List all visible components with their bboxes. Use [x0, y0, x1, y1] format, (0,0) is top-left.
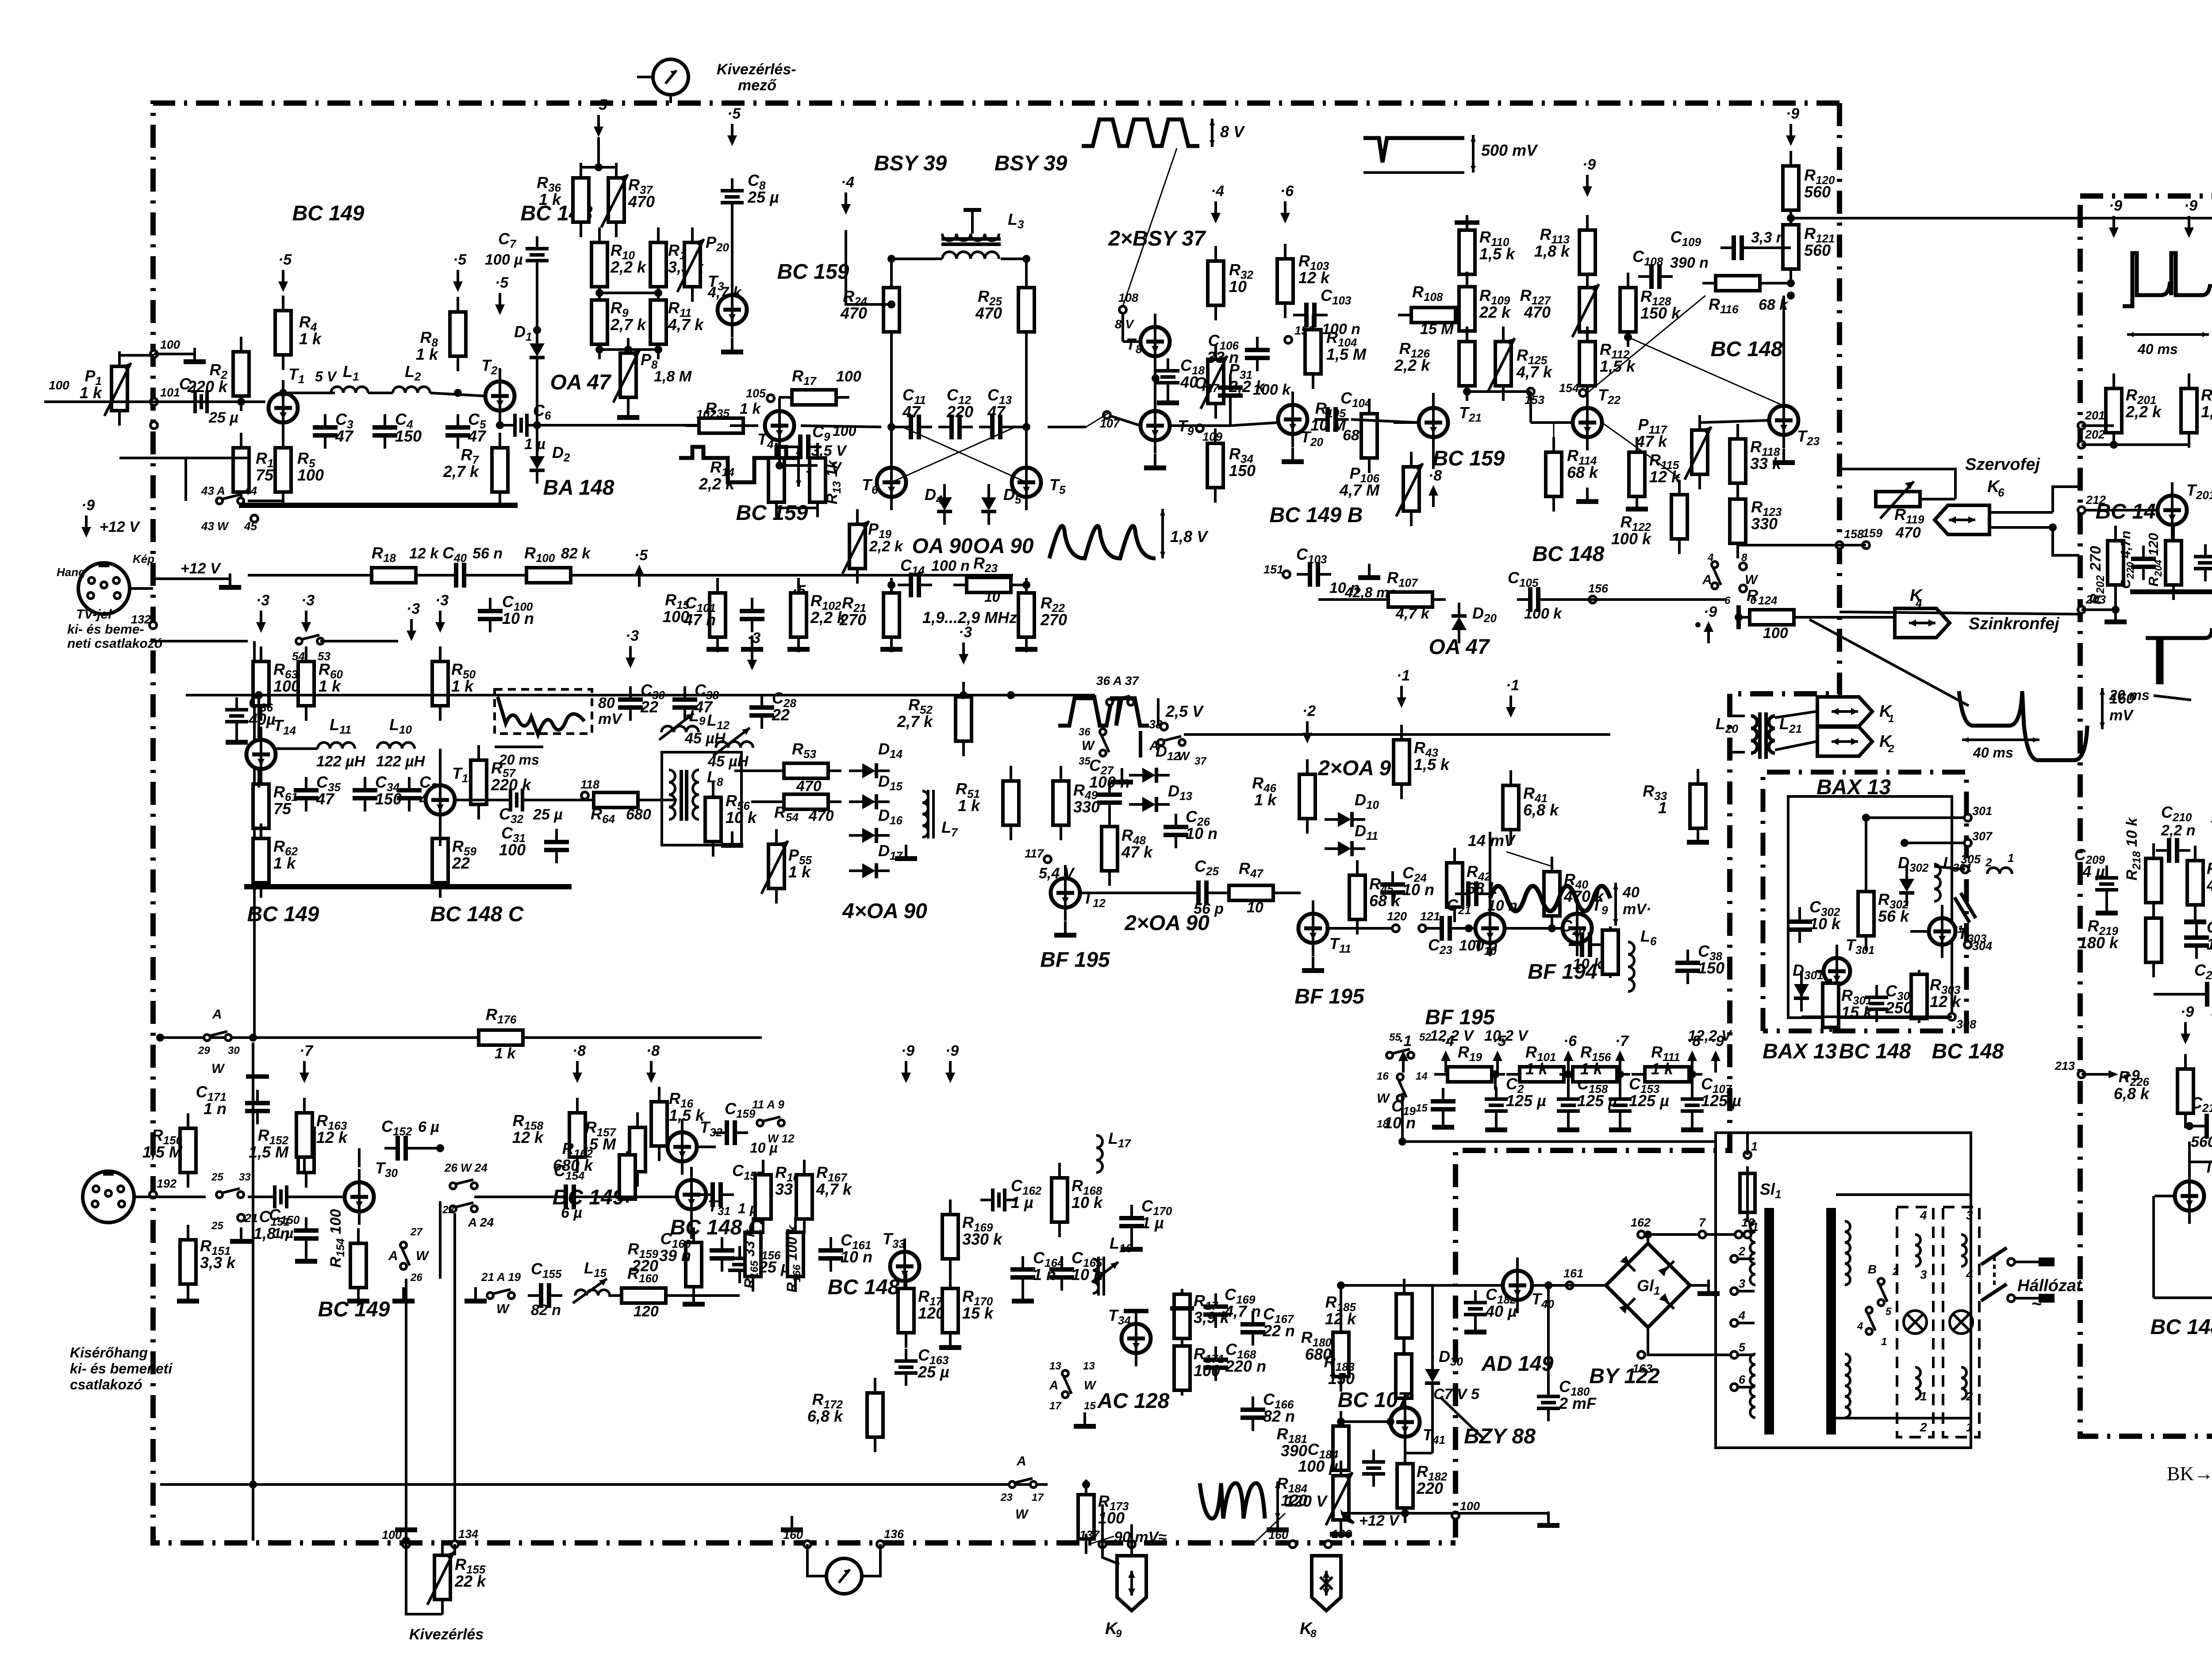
svg-text:1: 1 — [1751, 1140, 1758, 1153]
label R109 — [1479, 286, 1511, 321]
wire meter stem — [669, 95, 672, 103]
diode D12 — [1129, 768, 1170, 783]
diode D2 — [530, 443, 545, 484]
capacitor C31 — [544, 829, 569, 863]
wire sw to R1 — [248, 500, 283, 502]
bar R110 top — [1455, 220, 1479, 225]
svg-text:100: 100 — [49, 378, 69, 392]
capacitor C107 — [1681, 1087, 1704, 1124]
transistor T33 — [890, 1238, 919, 1294]
node 304 — [1964, 939, 1992, 953]
resistor R167 — [796, 1160, 812, 1234]
label R108 — [1412, 283, 1443, 304]
svg-text:1,8 k: 1,8 k — [1534, 242, 1571, 260]
capacitor C170 — [1119, 1205, 1144, 1239]
resistor R17b — [1174, 1289, 1190, 1344]
wire ps rail b — [1547, 1513, 1550, 1521]
svg-text:122 µH: 122 µH — [316, 753, 366, 770]
svg-text:BF 195: BF 195 — [1040, 948, 1110, 972]
label D13 — [1168, 782, 1192, 803]
label R60 — [319, 660, 343, 695]
node 136b — [1325, 1527, 1352, 1548]
svg-text:12 k: 12 k — [512, 1128, 544, 1146]
junction R12 mid — [654, 289, 662, 297]
svg-text:BC 148 C: BC 148 C — [430, 903, 524, 926]
diode D14 — [849, 763, 890, 778]
inductor L headwheel — [1987, 868, 2012, 874]
label R100 — [524, 544, 555, 565]
svg-text:1: 1 — [1658, 799, 1667, 817]
capacitor C1 — [183, 390, 220, 413]
label C171 — [196, 1083, 227, 1118]
wire 203 row — [2081, 608, 2116, 611]
wire row13 d — [571, 574, 1013, 577]
node 108 — [1118, 291, 1138, 313]
svg-text:10 k: 10 k — [1071, 1193, 1103, 1211]
ground T3 — [721, 338, 743, 354]
resistor R109 — [1459, 272, 1475, 346]
label R36 — [537, 173, 562, 208]
node 308 — [1948, 1013, 1976, 1031]
label R180 — [1301, 1328, 1332, 1363]
svg-text:Szervofej: Szervofej — [1965, 455, 2040, 474]
svg-text:2,7 k: 2,7 k — [610, 315, 647, 334]
svg-text:·9: ·9 — [901, 1042, 914, 1059]
label R152 — [249, 1126, 289, 1161]
power arrow +3 (C101) — [747, 630, 760, 670]
label C27 — [1089, 756, 1130, 791]
wire 153-T22 — [1529, 392, 1532, 423]
wire T12 out — [1080, 892, 1189, 894]
label C301 — [1885, 982, 1926, 1017]
resistor R105 — [1361, 399, 1377, 473]
label C161 — [841, 1231, 872, 1266]
label C106 — [1207, 331, 1239, 366]
svg-text:W: W — [1745, 573, 1759, 587]
svg-text:38: 38 — [1149, 718, 1162, 731]
ground R33 — [1687, 828, 1709, 845]
wire R47 to T11 — [1273, 892, 1301, 894]
node 160a — [783, 1528, 811, 1548]
resistor R156 — [1559, 1067, 1630, 1082]
svg-text:·5: ·5 — [495, 274, 509, 291]
capacitor C9 — [787, 435, 822, 459]
junction bax2 — [1901, 839, 1909, 847]
svg-text:+12 V: +12 V — [1359, 1512, 1400, 1529]
svg-text:560: 560 — [1804, 241, 1831, 259]
label P31 — [1229, 361, 1265, 396]
svg-text:47: 47 — [987, 403, 1006, 421]
svg-text:BC 148: BC 148 — [1839, 1040, 1911, 1063]
node 21 — [238, 1211, 258, 1225]
ground bus mid stage — [244, 884, 572, 889]
resistor R172 — [867, 1378, 883, 1452]
cross in K8 — [1320, 1577, 1333, 1589]
wire vert x572 — [252, 1042, 254, 1541]
power arrow +3 (R60) — [301, 592, 315, 633]
svg-text:151: 151 — [1263, 563, 1283, 576]
label R32 — [1229, 261, 1253, 296]
svg-text:2,7 k: 2,7 k — [897, 712, 933, 731]
resistor R51 — [1003, 766, 1019, 840]
wire T13 up — [439, 749, 442, 785]
arrow +12v leader — [1343, 1513, 1354, 1523]
potentiometer P55 — [761, 829, 788, 904]
fuse Sl1 — [1740, 1166, 1781, 1218]
power arrow r3 — [1493, 1033, 1506, 1073]
label R63 — [273, 660, 300, 695]
junction R120 mid — [1787, 214, 1795, 222]
svg-text:1 µ: 1 µ — [1011, 1193, 1033, 1211]
label R126 — [1394, 339, 1431, 374]
svg-text:BF 195: BF 195 — [1425, 1006, 1495, 1029]
svg-text:307: 307 — [1972, 830, 1993, 843]
resistor R32 — [1208, 246, 1224, 320]
diode D16 — [849, 828, 890, 843]
label P1 — [80, 367, 103, 402]
label C169 — [1224, 1285, 1261, 1320]
label R22 — [1040, 594, 1067, 629]
wire P1 top — [118, 351, 121, 355]
svg-text:132: 132 — [131, 613, 151, 626]
capacitor C38 — [1675, 950, 1700, 984]
frame BAX13 sub-block — [1763, 772, 1966, 1031]
svg-text:100: 100 — [1460, 1500, 1480, 1513]
svg-text:B: B — [1868, 1262, 1877, 1276]
svg-text:W: W — [211, 1061, 225, 1076]
wire T21 collector — [1433, 393, 1434, 408]
resistor R163 — [296, 1098, 312, 1172]
svg-text:47: 47 — [335, 427, 354, 445]
node 137 — [1079, 1528, 1106, 1548]
DIN connector Kiserohang — [83, 1170, 134, 1223]
label R17 — [792, 367, 817, 388]
svg-text:17: 17 — [1049, 1400, 1062, 1412]
wire T4 col — [778, 440, 781, 465]
ground C164 — [1012, 1287, 1034, 1304]
resistor R34 — [1207, 428, 1223, 503]
power arrow +2 (R46) — [1302, 703, 1316, 743]
svg-text:330: 330 — [1751, 515, 1778, 533]
svg-text:120: 120 — [1387, 910, 1407, 923]
wire C6 to D1 node — [540, 424, 705, 427]
junction bsy4 — [887, 300, 895, 308]
transistor T303 — [1929, 905, 1955, 958]
svg-text:·5: ·5 — [727, 105, 741, 122]
resistor R4 — [275, 296, 291, 370]
wire R107 left — [1318, 598, 1375, 601]
potentiometer R37 — [601, 163, 628, 237]
junction R124 — [1735, 613, 1743, 621]
label C17 — [1194, 374, 1219, 395]
label R40 — [1563, 870, 1605, 905]
wire R14 R13 join — [776, 507, 818, 509]
wire L12-R53 — [734, 748, 735, 771]
leader 90mV — [1089, 1536, 1114, 1544]
node 100 — [150, 338, 180, 358]
svg-text:100 n: 100 n — [931, 558, 970, 574]
wire R10 R12 mid — [599, 292, 658, 294]
power arrow r4 — [1563, 1033, 1577, 1073]
svg-text:90 mV≈: 90 mV≈ — [1114, 1529, 1167, 1546]
arrowhead right +3 — [398, 641, 399, 642]
label R7 — [443, 446, 480, 481]
svg-text:8 V: 8 V — [1115, 317, 1134, 331]
meter M1 top — [653, 59, 688, 95]
svg-text:56 k: 56 k — [1878, 907, 1910, 925]
wire 1383 to 203 — [1839, 612, 2081, 614]
wire bax L301 — [1934, 866, 1965, 869]
wire DIN to border — [130, 587, 153, 590]
resistor R22 — [1018, 578, 1034, 652]
power arrow r1 — [1398, 1033, 1412, 1073]
node 45 — [251, 515, 258, 522]
label C38 — [1698, 942, 1724, 977]
label R115 — [1649, 451, 1681, 486]
capacitor C27 — [1097, 781, 1122, 816]
label C5 — [468, 410, 487, 445]
label R203 — [2201, 386, 2212, 421]
svg-text:·9: ·9 — [2109, 197, 2122, 214]
svg-text:1 k: 1 k — [788, 863, 811, 881]
ground sw cluster — [1111, 768, 1133, 785]
power arrow +1 (R41) — [1506, 677, 1519, 718]
wire T31 col — [690, 1167, 693, 1180]
power arrow +1 (R43) — [1397, 667, 1410, 708]
resistor R110 — [1459, 215, 1475, 289]
label R226 — [2114, 1068, 2150, 1103]
label R157 — [576, 1118, 617, 1153]
capacitor C35 — [294, 777, 319, 811]
resistor R170 — [942, 1273, 958, 1348]
label R34 — [1229, 445, 1256, 480]
ground C2 — [1485, 1116, 1507, 1132]
svg-text:158: 158 — [1844, 527, 1864, 541]
label R164 — [775, 1163, 807, 1198]
label T41 — [1423, 1426, 1445, 1446]
label R116 — [1709, 295, 1739, 316]
svg-text:BAX 13: BAX 13 — [1816, 776, 1891, 799]
label T204 — [2210, 817, 2212, 838]
svg-text:43 A: 43 A — [201, 484, 225, 497]
svg-text:35: 35 — [1079, 755, 1091, 767]
junction D1 line — [533, 421, 541, 429]
svg-text:2: 2 — [1920, 1420, 1927, 1434]
svg-text:·8: ·8 — [646, 1042, 660, 1059]
svg-text:45 µH: 45 µH — [707, 753, 749, 770]
svg-text:A: A — [1016, 1454, 1026, 1469]
label R160 — [627, 1264, 658, 1285]
wire K6 box — [2053, 527, 2079, 555]
svg-text:220: 220 — [946, 403, 973, 421]
label R105 — [1310, 399, 1346, 434]
svg-text:BC 149: BC 149 — [292, 202, 365, 225]
wire bax T303 — [1910, 930, 1929, 933]
transformer L16 — [1092, 1257, 1118, 1296]
svg-text:·4: ·4 — [1441, 1033, 1454, 1050]
svg-text:R204 120: R204 120 — [2146, 533, 2164, 586]
resistor R46 — [1299, 759, 1315, 834]
potentiometer R125 — [1488, 327, 1515, 401]
junction T4 col — [776, 461, 783, 469]
label L8 — [707, 768, 723, 788]
junction T23 top — [1787, 292, 1795, 300]
svg-text:·9: ·9 — [81, 497, 95, 514]
capacitor C34 — [353, 777, 377, 811]
node 159 — [1863, 527, 1882, 549]
wire C23-T10 — [1459, 928, 1475, 929]
label R121 — [1804, 224, 1835, 259]
label D2 — [552, 443, 570, 464]
svg-text:·8: ·8 — [1687, 1033, 1701, 1050]
label R47 — [1239, 859, 1263, 880]
resistor R23 — [953, 577, 1024, 592]
svg-text:mV: mV — [598, 711, 623, 727]
label R51 — [956, 780, 981, 815]
label R17b — [1194, 1292, 1230, 1327]
svg-text:100: 100 — [160, 338, 180, 351]
capacitor C182 — [1464, 1290, 1487, 1327]
switch 4A-8W pair A — [1712, 561, 1721, 589]
wire K6 box2 — [2053, 487, 2079, 512]
label C155 — [531, 1260, 562, 1281]
resistor R54 — [771, 794, 841, 809]
svg-text:100 µ: 100 µ — [485, 251, 523, 268]
capacitor C4 — [373, 414, 397, 449]
wire C8 down to T3 — [731, 215, 733, 293]
resistor R101 — [1506, 1067, 1577, 1082]
wire 108 to T8 — [1121, 312, 1124, 342]
svg-text:25 µ: 25 µ — [918, 1363, 949, 1381]
wire T9b up — [1577, 823, 1578, 914]
resistor R7 — [492, 433, 508, 507]
svg-text:10,2 V: 10,2 V — [1484, 1027, 1529, 1044]
wire to 107 — [1086, 412, 1110, 427]
wire long 2345b — [523, 1036, 762, 1039]
svg-text:23: 23 — [1000, 1492, 1013, 1504]
node 212 — [2078, 493, 2106, 514]
ground 160b — [1267, 1516, 1289, 1532]
svg-text:22 k: 22 k — [454, 1572, 487, 1590]
switch A27-W26 — [400, 1242, 410, 1269]
resistor R62 — [253, 823, 269, 898]
label T11 — [1329, 934, 1351, 955]
ground R154 — [347, 1287, 369, 1304]
power arrow +9 (R113) — [1582, 156, 1596, 197]
wire lamp rail bot — [1836, 1417, 1971, 1419]
resistor R1 — [233, 433, 249, 507]
resistor R47 — [1216, 885, 1286, 900]
wire L3 right wire — [1001, 258, 1026, 260]
junction C109R116 — [1787, 279, 1795, 287]
power arrow +5 (T4 join) — [792, 582, 806, 623]
power arrow +5 (T2) — [495, 274, 509, 315]
resistor R220 — [2187, 846, 2203, 920]
junction R11 bot — [654, 346, 662, 354]
capacitor C5 — [445, 414, 470, 449]
wire sw drop — [184, 458, 187, 501]
node sw 6b — [1740, 585, 1747, 592]
svg-text:470 k: 470 k — [2206, 876, 2212, 894]
svg-text:·8: ·8 — [1429, 467, 1442, 484]
wire fuse to core — [1746, 1212, 1749, 1222]
wire cap drop C107 — [1691, 1074, 1694, 1090]
label C14 — [900, 556, 925, 577]
label D10 — [1355, 791, 1379, 811]
svg-text:150: 150 — [1698, 959, 1724, 977]
svg-text:25: 25 — [211, 1171, 223, 1183]
wire bsy4 feed — [846, 230, 891, 304]
waveform 10V — [2123, 252, 2212, 357]
svg-text:52: 52 — [1419, 1031, 1431, 1043]
svg-text:1: 1 — [1888, 713, 1894, 725]
switch 11A9 — [757, 1117, 784, 1126]
svg-text:560 n: 560 n — [2191, 1134, 2212, 1150]
wire T9b col up — [1577, 772, 1578, 914]
wire 137 up — [1101, 1504, 1104, 1544]
svg-text:212: 212 — [2085, 493, 2106, 507]
svg-text:330: 330 — [1073, 798, 1100, 816]
label R11 — [668, 299, 704, 334]
wire cross b — [1587, 296, 1705, 393]
capacitor C168 — [1203, 1346, 1228, 1381]
capacitor C6 — [503, 414, 540, 437]
svg-text:560: 560 — [1804, 183, 1831, 201]
potentiometer R184 — [1326, 1461, 1352, 1535]
svg-text:150: 150 — [395, 427, 422, 445]
svg-text:2×OA 90: 2×OA 90 — [1317, 757, 1403, 780]
svg-text:101: 101 — [160, 386, 180, 399]
wire cap drop C2 — [1494, 1074, 1497, 1090]
svg-text:·2: ·2 — [1302, 703, 1316, 719]
label D301 — [1793, 961, 1823, 982]
junction rail r5 — [1688, 1070, 1696, 1078]
svg-text:BC 159: BC 159 — [777, 260, 849, 284]
svg-text:470: 470 — [840, 304, 867, 322]
wire T13 to C32 — [455, 799, 510, 801]
svg-text:W: W — [1015, 1507, 1029, 1522]
label R54 — [774, 803, 799, 824]
wire R119 up — [1839, 469, 1955, 499]
junction rail r3 — [1564, 1070, 1572, 1078]
potentiometer P19 — [842, 509, 869, 584]
mains switch and plug — [1981, 1248, 2055, 1303]
label C154 — [554, 1161, 585, 1182]
waveform 12,8V — [2109, 628, 2212, 703]
resistor R202 — [2108, 526, 2124, 600]
svg-text:·4: ·4 — [841, 174, 854, 191]
wire row13 b — [416, 574, 447, 577]
transistor T21 — [1419, 395, 1448, 450]
wire T21 emitter — [1432, 437, 1435, 469]
label T8 — [1126, 335, 1142, 356]
wire din gnd — [153, 577, 230, 580]
svg-text:·5: ·5 — [1493, 1033, 1506, 1050]
transistor T9b — [1563, 900, 1592, 956]
resistor R48 — [1102, 811, 1118, 886]
ground 21A19 — [465, 1287, 487, 1304]
svg-text:82 n: 82 n — [531, 1302, 561, 1319]
label C7 — [498, 230, 517, 250]
label R127 — [1520, 286, 1551, 321]
svg-text:BC 159: BC 159 — [1433, 447, 1505, 470]
wire 2626 row — [2189, 1161, 2212, 1163]
svg-text:12 k: 12 k — [1930, 992, 1962, 1011]
label C216 — [2191, 1094, 2212, 1115]
switch 13A-13W — [1062, 1370, 1071, 1398]
wire T21 base from C104 — [1394, 421, 1419, 424]
capacitor C103b — [1297, 562, 1331, 587]
